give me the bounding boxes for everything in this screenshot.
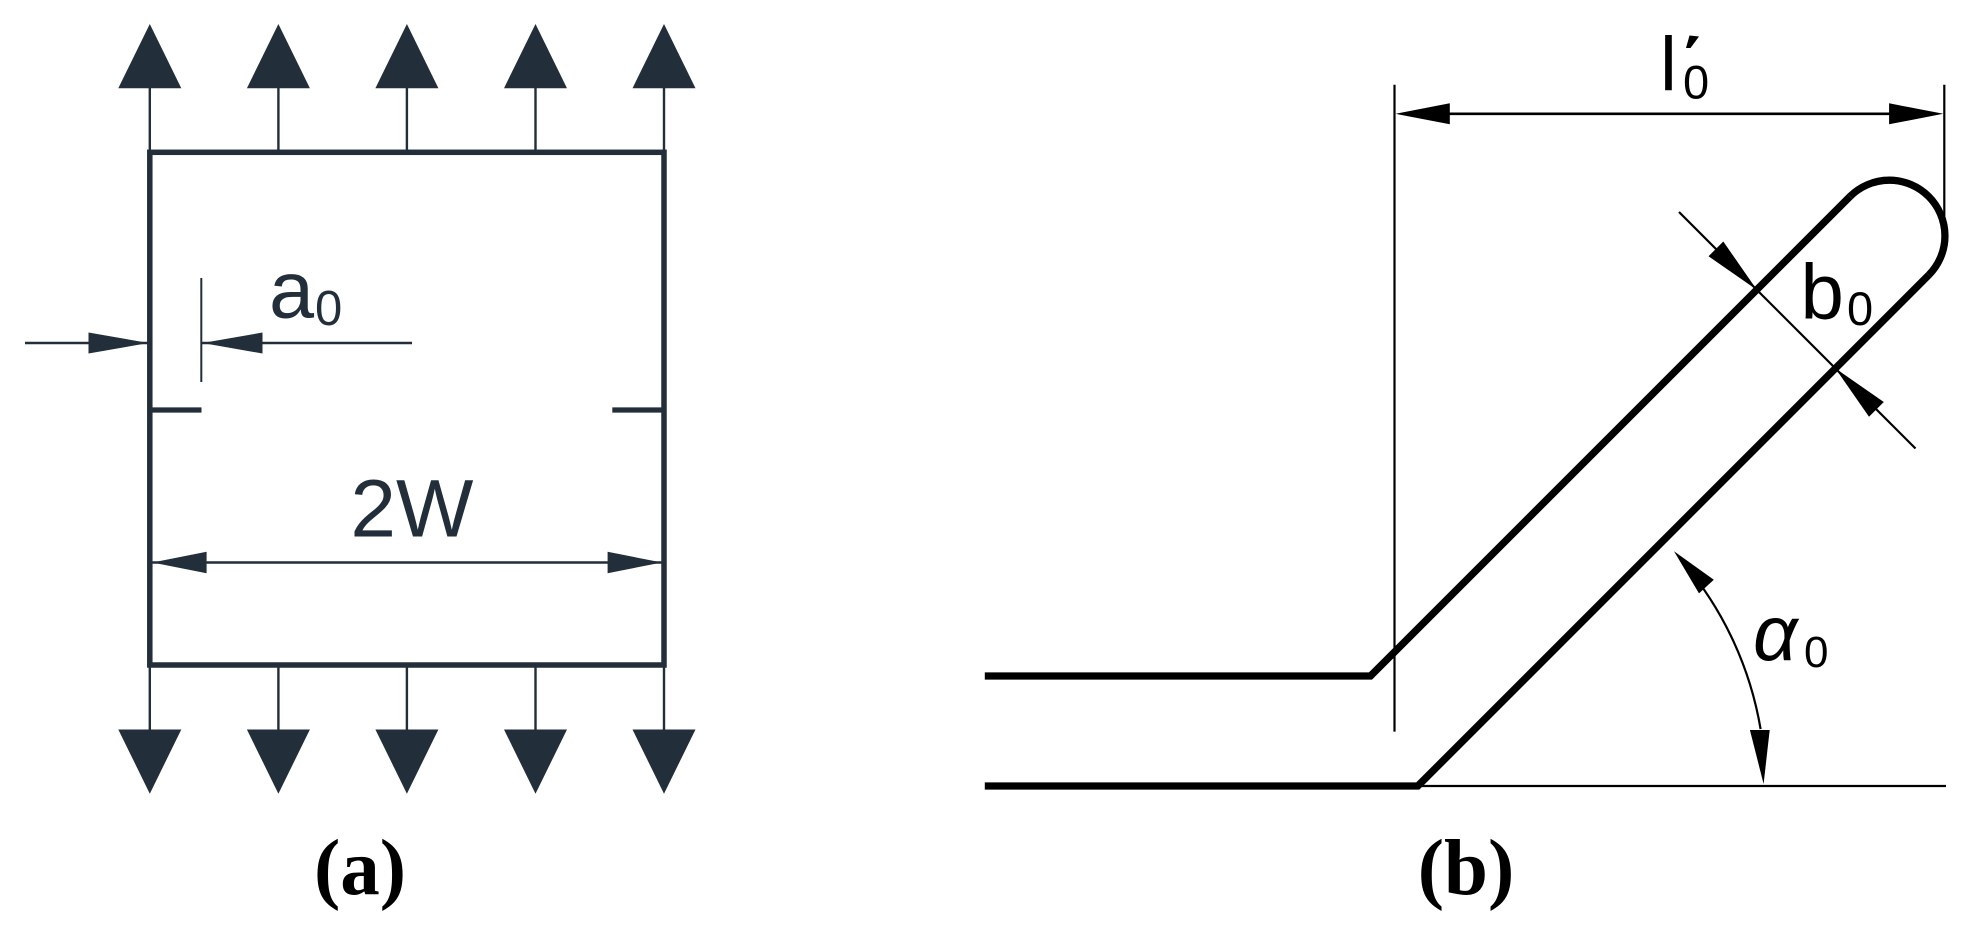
svg-text:0: 0 — [1804, 628, 1828, 677]
alpha0 arc lower arrowhead — [1750, 730, 1770, 784]
right edge crack mark — [612, 407, 665, 412]
svg-text:0: 0 — [315, 282, 342, 336]
plate (a) square outline — [150, 152, 664, 665]
a0 dimension arrowhead pointing left at tick — [203, 333, 263, 354]
top load arrowhead 4 — [504, 24, 567, 88]
top load arrow stem 1 — [149, 88, 151, 153]
top load arrowhead 2 — [247, 24, 310, 88]
bottom load arrowhead 4 — [504, 730, 567, 794]
b0 dimension line — [1679, 212, 1916, 449]
bottom load arrowhead 5 — [633, 730, 696, 794]
crack rounded tip arc — [1850, 180, 1945, 275]
svg-text:a: a — [269, 246, 315, 336]
top load arrow stem 4 — [534, 88, 536, 153]
top load arrow stem 3 — [406, 88, 408, 153]
a0 dimension arrowhead pointing right at plate edge — [89, 333, 149, 354]
a0 tick line — [200, 278, 202, 382]
svg-text:b: b — [1801, 248, 1844, 336]
bottom load arrow stem 5 — [663, 665, 665, 730]
bottom load arrow stem 1 — [149, 665, 151, 730]
bottom load arrow stem 4 — [534, 665, 536, 730]
left extension line — [1393, 85, 1395, 732]
top load arrow stem 2 — [277, 88, 279, 153]
bottom load arrow stem 3 — [406, 665, 408, 730]
top load arrowhead 3 — [375, 24, 438, 88]
crack upper edge polyline — [985, 197, 1850, 677]
l0 dimension line — [1449, 113, 1890, 116]
right extension line — [1943, 85, 1945, 230]
svg-text:(a): (a) — [314, 825, 406, 912]
svg-text:l: l — [1660, 22, 1677, 107]
horizontal reference line — [1418, 785, 1946, 787]
b0 lower arrowhead — [1835, 368, 1883, 416]
bottom load arrowhead 1 — [118, 730, 181, 794]
b0 upper arrowhead — [1709, 242, 1757, 290]
bottom load arrowhead 2 — [247, 730, 310, 794]
svg-text:0: 0 — [1847, 282, 1873, 335]
crack lower edge polyline — [985, 275, 1929, 786]
2W dimension right arrowhead — [608, 552, 662, 573]
bottom load arrowhead 3 — [375, 730, 438, 794]
alpha0 arc upper arrowhead — [1674, 551, 1714, 593]
2W dimension line — [152, 561, 662, 564]
top load arrow stem 5 — [663, 88, 665, 153]
l0 dimension left arrowhead — [1396, 103, 1450, 124]
svg-text:α: α — [1753, 589, 1800, 677]
svg-text:(b): (b) — [1418, 825, 1515, 912]
bottom load arrow stem 2 — [277, 665, 279, 730]
svg-text:2W: 2W — [350, 464, 474, 555]
top load arrowhead 1 — [118, 24, 181, 88]
2W dimension left arrowhead — [152, 552, 206, 573]
a0 dimension left line — [25, 342, 149, 345]
left edge crack mark — [149, 407, 202, 412]
svg-text:0: 0 — [1683, 56, 1709, 109]
l0 dimension right arrowhead — [1889, 103, 1943, 124]
alpha0 angle arc — [1685, 565, 1761, 730]
top load arrowhead 5 — [633, 24, 696, 88]
a0 dimension right line — [202, 342, 412, 345]
